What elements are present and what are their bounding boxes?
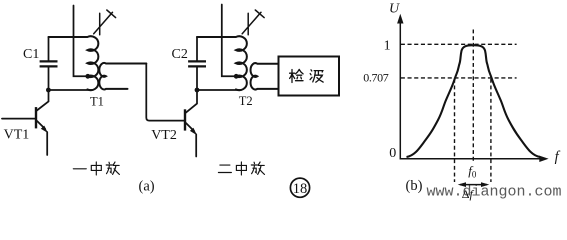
svg-text:1: 1 [384, 38, 391, 53]
svg-text:VT1: VT1 [4, 128, 30, 143]
svg-text:U: U [389, 1, 400, 16]
svg-text:Δf: Δf [462, 187, 475, 201]
svg-text:f0: f0 [468, 163, 477, 180]
svg-text:T2: T2 [239, 94, 253, 108]
svg-text:0: 0 [389, 146, 396, 161]
svg-text:(b): (b) [406, 178, 423, 194]
svg-text:www.diangon.com: www.diangon.com [427, 183, 562, 200]
svg-text:f: f [555, 149, 561, 165]
svg-text:(a): (a) [139, 178, 155, 194]
svg-text:C2: C2 [172, 47, 188, 62]
svg-text:18: 18 [293, 181, 308, 197]
svg-text:VT2: VT2 [151, 128, 177, 143]
svg-text:T1: T1 [90, 94, 104, 108]
svg-text:0.707: 0.707 [363, 71, 389, 85]
svg-text:C1: C1 [23, 47, 39, 62]
